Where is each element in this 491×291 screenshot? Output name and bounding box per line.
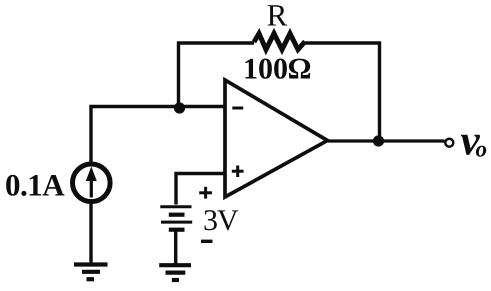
svg-text:3V: 3V xyxy=(203,204,239,237)
wire battery bottom stem xyxy=(174,231,177,265)
battery minus label xyxy=(201,240,213,243)
wire current source top stem xyxy=(89,105,92,162)
svg-text:o: o xyxy=(476,137,488,162)
current source I1 0.1A xyxy=(73,164,111,202)
wire feedback left+top run xyxy=(179,43,255,108)
svg-text:R: R xyxy=(267,0,288,33)
svg-text:0.1A: 0.1A xyxy=(5,168,65,203)
wire top right run xyxy=(305,43,380,141)
battery plus label xyxy=(199,187,212,199)
battery V1 3V xyxy=(160,207,192,230)
svg-text:100Ω: 100Ω xyxy=(243,53,311,86)
node output junction xyxy=(373,135,384,146)
node junction at inverting input xyxy=(174,102,185,113)
ground under battery xyxy=(159,265,191,280)
resistor R 100ohm zigzag xyxy=(254,34,305,50)
wire current source bottom stem xyxy=(89,202,92,264)
op-amp U1 xyxy=(225,80,328,197)
wire inverting input xyxy=(89,105,223,108)
wire output xyxy=(328,139,445,142)
ground under current source xyxy=(74,265,108,280)
terminal vo open circle xyxy=(445,139,453,147)
wire noninverting input xyxy=(176,174,224,205)
